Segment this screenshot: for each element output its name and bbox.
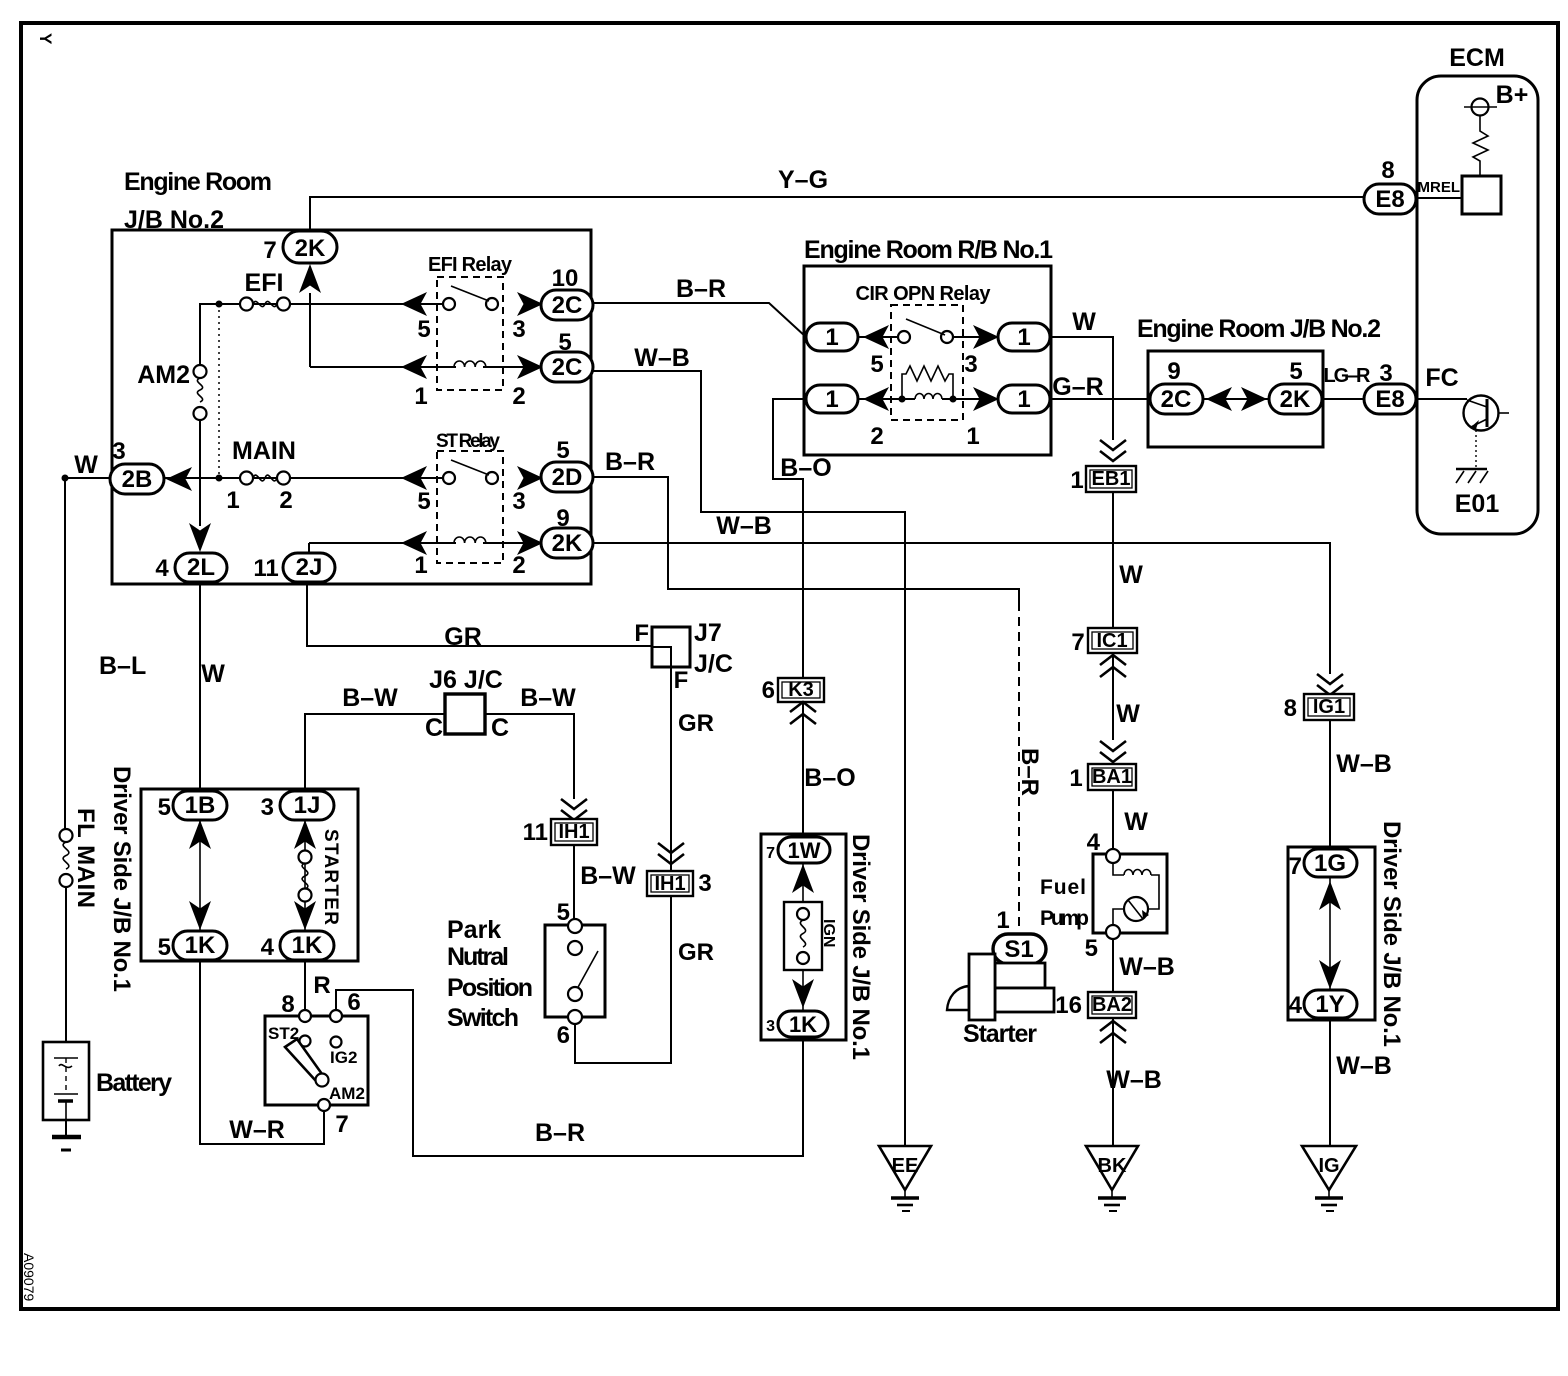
svg-text:K3: K3 bbox=[788, 679, 814, 701]
arrow up (1B) bbox=[189, 820, 211, 849]
svg-text:3: 3 bbox=[766, 1018, 775, 1035]
connector 2C pin 10 bbox=[541, 265, 593, 320]
ignition switch pin 6 bbox=[330, 989, 361, 1067]
connector 2K pin 7 bbox=[263, 231, 337, 264]
svg-text:B–W: B–W bbox=[520, 684, 576, 712]
svg-text:E01: E01 bbox=[1455, 490, 1500, 518]
svg-text:EE: EE bbox=[892, 1155, 919, 1177]
connector 1 (relay bottom-left) bbox=[806, 385, 858, 413]
svg-text:AM2: AM2 bbox=[329, 1084, 365, 1103]
svg-text:Pump: Pump bbox=[1040, 907, 1089, 930]
label GR bbox=[678, 939, 714, 966]
label W (battery feed) bbox=[74, 451, 98, 479]
wire GR 2J to J7 bbox=[307, 582, 651, 646]
connector 2K pin 5 (right J/B) bbox=[1269, 358, 1322, 414]
svg-text:1: 1 bbox=[1070, 467, 1083, 494]
svg-text:5: 5 bbox=[1289, 358, 1302, 385]
svg-text:Y–G: Y–G bbox=[778, 166, 828, 194]
svg-text:Starter: Starter bbox=[963, 1020, 1037, 1048]
wire W 1K(5) down to W-R run bbox=[200, 960, 318, 1144]
connector 1J pin 3 bbox=[261, 791, 334, 821]
svg-text:Battery: Battery bbox=[96, 1069, 172, 1097]
wire B-O relay pin2 to K3 bbox=[773, 399, 806, 680]
ignition switch pin 8 bbox=[268, 991, 311, 1047]
wire B-R 2C10 to CIR OPN relay bbox=[593, 303, 806, 337]
page connector chevrons into IG1 bbox=[1317, 674, 1343, 695]
wire BA1 to fuel pump pin 4 bbox=[1112, 790, 1114, 849]
arrow left EFI relay pin1 bbox=[401, 355, 427, 379]
ground battery bbox=[52, 1120, 81, 1150]
svg-text:FL MAIN: FL MAIN bbox=[72, 808, 99, 908]
arrow down (1K right) bbox=[294, 901, 316, 930]
arrow right EFI relay pin3 bbox=[517, 292, 543, 316]
connector 2C pin 5 bbox=[541, 329, 593, 382]
svg-text:Switch: Switch bbox=[447, 1004, 519, 1032]
label B-R rotated (starter wire) bbox=[1016, 748, 1043, 796]
svg-text:5: 5 bbox=[556, 437, 569, 464]
fuse STARTER bbox=[299, 820, 342, 931]
junction box Engine Room J/B No.2 (right) bbox=[1148, 351, 1323, 447]
svg-text:MAIN: MAIN bbox=[232, 437, 296, 465]
ignition switch rotor bbox=[285, 1039, 329, 1087]
arrow right ST relay pin2 bbox=[517, 531, 543, 555]
junction J7 J/C bbox=[634, 619, 733, 694]
connector BA2 pin 16 bbox=[1055, 992, 1136, 1019]
connector EB1 pin 1 bbox=[1070, 466, 1136, 494]
wire through J/B 2C-2K bbox=[1203, 398, 1364, 400]
connector 1K pin 5 bbox=[158, 931, 227, 961]
svg-text:E8: E8 bbox=[1375, 386, 1404, 413]
svg-text:1K: 1K bbox=[789, 1012, 817, 1037]
connector E8 pin 3 bbox=[1364, 360, 1416, 414]
svg-text:CIR OPN Relay: CIR OPN Relay bbox=[856, 283, 992, 305]
arrow left (to 2C) bbox=[1206, 387, 1232, 411]
label B-O bbox=[804, 764, 855, 792]
label CIR OPN Relay bbox=[856, 283, 992, 305]
label AM2 bbox=[137, 361, 190, 389]
connector 1B pin 5 bbox=[158, 791, 227, 821]
arrow up (1J) bbox=[294, 820, 316, 849]
svg-text:C: C bbox=[491, 714, 509, 742]
svg-text:2: 2 bbox=[279, 487, 292, 514]
connector 2D pin 5 bbox=[541, 437, 593, 492]
svg-text:2C: 2C bbox=[552, 354, 583, 381]
svg-text:4: 4 bbox=[261, 934, 275, 961]
svg-text:GR: GR bbox=[444, 623, 482, 651]
svg-text:B–W: B–W bbox=[342, 684, 398, 712]
svg-text:B–R: B–R bbox=[676, 275, 726, 303]
connector 1 (relay bottom-right) bbox=[998, 385, 1050, 413]
wire W relay to EB1 bbox=[1050, 337, 1113, 440]
connector 1 (relay top-left) bbox=[806, 323, 858, 351]
arrow right EFI relay pin2 bbox=[517, 355, 543, 379]
svg-text:B+: B+ bbox=[1496, 81, 1529, 109]
svg-text:W–B: W–B bbox=[1336, 1052, 1392, 1080]
svg-text:W: W bbox=[1124, 808, 1148, 836]
label ECM bbox=[1449, 44, 1505, 72]
transistor FC driver bbox=[1464, 396, 1510, 468]
svg-text:6: 6 bbox=[557, 1022, 570, 1049]
svg-text:1Y: 1Y bbox=[1315, 991, 1344, 1018]
svg-text:BK: BK bbox=[1098, 1155, 1127, 1177]
svg-text:A09079: A09079 bbox=[21, 1253, 37, 1301]
svg-text:8: 8 bbox=[1284, 695, 1297, 722]
svg-text:W: W bbox=[201, 660, 225, 688]
svg-text:B–R: B–R bbox=[535, 1119, 585, 1147]
svg-text:5: 5 bbox=[158, 794, 171, 821]
svg-text:Nutral: Nutral bbox=[447, 943, 509, 971]
svg-text:ST Relay: ST Relay bbox=[436, 431, 500, 452]
corner mark Y bbox=[36, 33, 55, 45]
wire B-W IH1 to PNP pin5 bbox=[573, 845, 575, 919]
svg-text:W–R: W–R bbox=[229, 1116, 285, 1144]
svg-text:Driver Side J/B No.1: Driver Side J/B No.1 bbox=[847, 834, 874, 1060]
ST relay contact bbox=[417, 460, 525, 515]
svg-text:S1: S1 bbox=[1004, 936, 1033, 963]
page connector chevrons into IH1(3) bbox=[658, 843, 684, 864]
connector 1K pin 4 bbox=[261, 931, 334, 961]
arrow down to 2L bbox=[189, 523, 211, 552]
connector IC1 pin 7 bbox=[1071, 628, 1137, 656]
EFI relay coil row wire bbox=[310, 366, 541, 368]
wire B-R IG2 to 1K(3) run bbox=[336, 990, 803, 1156]
arrow right (to 2K) bbox=[1241, 387, 1267, 411]
arrow down (1K middle) bbox=[792, 979, 814, 1008]
svg-text:1: 1 bbox=[414, 383, 427, 410]
svg-text:5: 5 bbox=[417, 488, 430, 515]
svg-text:7: 7 bbox=[1071, 629, 1084, 656]
svg-text:5: 5 bbox=[417, 316, 430, 343]
wire B-R 2D5 to starter S1 bbox=[593, 477, 1019, 930]
ST relay coil row wire bbox=[309, 543, 541, 553]
label Engine Room J/B No.2 (top-left) bbox=[124, 168, 272, 234]
label B-O bbox=[780, 454, 831, 482]
fusible link FL MAIN bbox=[60, 808, 100, 1042]
label W-B (2K9 run) bbox=[716, 512, 772, 540]
label B-R bbox=[535, 1119, 585, 1147]
junction box Driver Side J/B No.1 (middle) bbox=[761, 834, 846, 1040]
svg-text:MREL: MREL bbox=[1418, 179, 1461, 196]
svg-text:1: 1 bbox=[1017, 386, 1030, 413]
label B-L bbox=[99, 652, 146, 680]
svg-text:Driver Side J/B No.1: Driver Side J/B No.1 bbox=[1378, 821, 1405, 1047]
connector IG1 pin 8 bbox=[1284, 694, 1354, 722]
svg-text:EFI: EFI bbox=[245, 269, 284, 297]
svg-text:4: 4 bbox=[1289, 992, 1303, 1019]
svg-text:3: 3 bbox=[112, 438, 125, 465]
svg-text:11: 11 bbox=[523, 819, 548, 846]
svg-text:Engine Room: Engine Room bbox=[124, 168, 272, 196]
CIR OPN coil bbox=[870, 394, 979, 451]
svg-text:J/C: J/C bbox=[694, 650, 733, 678]
svg-text:10: 10 bbox=[552, 265, 579, 292]
label Park Nutral Position Switch bbox=[447, 916, 533, 1032]
label B-R (2D) bbox=[605, 448, 655, 476]
svg-text:EB1: EB1 bbox=[1092, 468, 1131, 490]
connector 2J pin 11 bbox=[253, 553, 335, 582]
junction box Driver Side J/B No.1 (right) bbox=[1288, 847, 1375, 1020]
svg-text:GR: GR bbox=[678, 710, 714, 737]
ignition switch pin 7 AM2 bbox=[318, 1084, 365, 1138]
arrow up (1W) bbox=[792, 864, 814, 893]
arrow up (1G) bbox=[1319, 881, 1341, 910]
fuel pump bbox=[1040, 829, 1167, 962]
label Y-G bbox=[778, 166, 828, 194]
svg-text:W: W bbox=[1072, 308, 1096, 336]
connector 2C pin 9 (right J/B) bbox=[1150, 358, 1203, 414]
svg-text:1: 1 bbox=[226, 487, 239, 514]
svg-text:3: 3 bbox=[512, 488, 525, 515]
arrow left CIR OPN pin2 bbox=[863, 387, 889, 411]
svg-text:11: 11 bbox=[253, 555, 278, 582]
svg-text:W–B: W–B bbox=[634, 344, 690, 372]
label EFI bbox=[245, 269, 284, 297]
svg-text:8: 8 bbox=[1381, 157, 1394, 184]
arrow right CIR OPN pin3 bbox=[973, 325, 999, 349]
svg-text:Driver Side J/B No.1: Driver Side J/B No.1 bbox=[108, 766, 135, 992]
svg-text:3: 3 bbox=[964, 351, 977, 378]
junction box Driver Side J/B No.1 (left) bbox=[141, 789, 358, 961]
label GR bbox=[678, 710, 714, 737]
label B-W (left) bbox=[342, 684, 398, 712]
svg-text:LG–R: LG–R bbox=[1324, 365, 1372, 387]
wire AM2 pin down to W-R bbox=[200, 1111, 324, 1144]
wire W 2L to 1B bbox=[199, 582, 201, 791]
arrow left ST relay pin1 bbox=[401, 531, 427, 555]
label W-B bbox=[634, 344, 690, 372]
label W-B bbox=[1106, 1066, 1162, 1094]
svg-text:FC: FC bbox=[1425, 364, 1458, 392]
svg-text:5: 5 bbox=[158, 934, 171, 961]
svg-text:Park: Park bbox=[447, 916, 501, 944]
svg-text:IC1: IC1 bbox=[1096, 630, 1127, 652]
svg-text:G–R: G–R bbox=[1052, 373, 1103, 401]
ground EE bbox=[879, 1146, 931, 1211]
label W-B bbox=[1119, 953, 1175, 981]
wire inside left J/B (1B-1K) bbox=[199, 820, 201, 931]
label B-W (right) bbox=[520, 684, 576, 712]
terminal B+ circle bbox=[1464, 99, 1497, 116]
label GR bbox=[444, 623, 482, 651]
connector 2K pin 9 bbox=[541, 505, 593, 558]
svg-text:W–B: W–B bbox=[1336, 750, 1392, 778]
label Driver Side J/B No.1 (left, rotated) bbox=[108, 766, 135, 992]
svg-text:6: 6 bbox=[762, 677, 775, 704]
label W bbox=[1116, 700, 1140, 728]
relay CIR OPN (dashed) bbox=[891, 305, 963, 420]
svg-text:2C: 2C bbox=[552, 292, 583, 319]
wire Y-G from 2K to ECM E8 bbox=[310, 197, 1366, 231]
wire FC into ECM bbox=[1416, 398, 1467, 400]
svg-text:5: 5 bbox=[1085, 935, 1098, 962]
label MAIN bbox=[232, 437, 296, 465]
svg-text:1: 1 bbox=[966, 423, 979, 450]
svg-text:1: 1 bbox=[1017, 324, 1030, 351]
svg-text:IH1: IH1 bbox=[654, 873, 685, 895]
arrow left CIR OPN pin5 bbox=[863, 325, 889, 349]
wire 1Y to IG ground bbox=[1329, 1018, 1331, 1146]
fuse EFI bbox=[240, 298, 290, 311]
svg-text:F: F bbox=[634, 620, 649, 647]
label B-W bbox=[580, 862, 636, 890]
resistor in ECM bbox=[1473, 115, 1488, 176]
park neutral position switch bbox=[545, 899, 605, 1049]
svg-text:B–O: B–O bbox=[804, 764, 855, 792]
svg-text:W: W bbox=[1119, 561, 1143, 589]
junction J6 J/C bbox=[425, 666, 509, 742]
svg-text:1B: 1B bbox=[185, 792, 216, 819]
connector BA1 pin 1 bbox=[1069, 764, 1136, 792]
label W-B bbox=[1336, 750, 1392, 778]
label Engine Room J/B No.2 (right) bbox=[1137, 315, 1381, 343]
label Engine Room R/B No.1 bbox=[804, 236, 1053, 264]
wire EFI row bbox=[199, 303, 444, 305]
svg-text:F: F bbox=[674, 667, 689, 694]
connector 2L pin 4 bbox=[155, 553, 227, 582]
label W bbox=[1072, 308, 1096, 336]
ground BK bbox=[1086, 1146, 1138, 1211]
svg-text:Engine Room R/B No.1: Engine Room R/B No.1 bbox=[804, 236, 1053, 264]
fuse IGN bbox=[784, 864, 837, 1011]
connector 1K pin 3 bbox=[766, 1011, 828, 1037]
CIR OPN contact row wires bbox=[858, 336, 998, 338]
wire W-B 2C5 to EE ground bbox=[593, 371, 905, 1146]
svg-text:2: 2 bbox=[512, 552, 525, 579]
svg-text:R: R bbox=[313, 972, 330, 999]
starter S1 connector pin 1 bbox=[993, 907, 1046, 964]
arrow down (1K left) bbox=[189, 901, 211, 930]
svg-text:J6 J/C: J6 J/C bbox=[429, 666, 503, 694]
wire W from left down to battery bbox=[62, 475, 111, 830]
svg-text:1: 1 bbox=[414, 552, 427, 579]
svg-text:1: 1 bbox=[825, 324, 838, 351]
relay EFI Relay (dashed) bbox=[428, 254, 513, 390]
svg-text:Position: Position bbox=[447, 974, 533, 1002]
svg-text:2K: 2K bbox=[295, 235, 326, 262]
svg-text:W–B: W–B bbox=[716, 512, 772, 540]
ground IG bbox=[1302, 1146, 1356, 1211]
starter motor body bbox=[947, 954, 1054, 1020]
svg-text:16: 16 bbox=[1055, 992, 1082, 1019]
wire MAIN row bbox=[164, 477, 444, 479]
wire GR J7 to IH1 bbox=[670, 668, 672, 871]
wire R 1K to ignition switch bbox=[304, 960, 306, 1010]
svg-text:9: 9 bbox=[1167, 358, 1180, 385]
svg-text:8: 8 bbox=[281, 991, 294, 1018]
svg-text:W: W bbox=[74, 451, 98, 479]
connector 2B pin 3 bbox=[110, 438, 164, 494]
svg-text:3: 3 bbox=[261, 794, 274, 821]
connector E8 pin 8 bbox=[1364, 157, 1462, 214]
svg-text:ECM: ECM bbox=[1449, 44, 1505, 72]
wire B-W 1J to J6 to IH1(11) bbox=[305, 714, 574, 799]
svg-text:4: 4 bbox=[1087, 829, 1101, 856]
label R bbox=[313, 972, 330, 999]
svg-text:1: 1 bbox=[996, 907, 1009, 934]
wire BA2 to BK ground bbox=[1112, 1018, 1114, 1146]
label FC bbox=[1425, 364, 1458, 392]
EFI relay coil bbox=[414, 361, 525, 410]
svg-text:1K: 1K bbox=[185, 932, 216, 959]
svg-text:AM2: AM2 bbox=[137, 361, 190, 389]
arrow left ST relay pin5 bbox=[401, 466, 427, 490]
fuse MAIN bbox=[226, 472, 292, 515]
svg-text:1W: 1W bbox=[788, 838, 821, 863]
sheet number A09079 bbox=[21, 1253, 37, 1301]
svg-text:C: C bbox=[425, 714, 443, 742]
svg-text:B–R: B–R bbox=[605, 448, 655, 476]
svg-text:5: 5 bbox=[557, 899, 570, 926]
svg-text:1K: 1K bbox=[292, 932, 323, 959]
wire inside right J/B bbox=[1329, 877, 1331, 990]
relay ST Relay (dashed) bbox=[436, 431, 503, 563]
label LG-R bbox=[1324, 365, 1372, 387]
wire B-O K3 to 1W bbox=[802, 702, 804, 839]
label W-B bbox=[1336, 1052, 1392, 1080]
ignition switch box bbox=[265, 1016, 368, 1105]
svg-text:2D: 2D bbox=[552, 464, 583, 491]
svg-text:1: 1 bbox=[1069, 765, 1082, 792]
wire fuel pump to BA2 bbox=[1112, 939, 1114, 992]
svg-text:7: 7 bbox=[263, 237, 276, 264]
svg-text:IGN: IGN bbox=[820, 919, 837, 947]
svg-text:IG1: IG1 bbox=[1313, 696, 1345, 718]
svg-text:IG2: IG2 bbox=[330, 1048, 357, 1067]
CIR OPN resistor (parallel) bbox=[902, 366, 953, 399]
svg-text:J7: J7 bbox=[694, 619, 722, 647]
arrow right CIR OPN pin1 bbox=[973, 387, 999, 411]
svg-text:B–W: B–W bbox=[580, 862, 636, 890]
svg-text:7: 7 bbox=[766, 845, 775, 862]
page connector chevrons below IC1 bbox=[1100, 655, 1126, 677]
connector 1 (relay top-right) bbox=[998, 323, 1050, 351]
wire EB1 to IC1 bbox=[1112, 492, 1114, 628]
node EFI/MAIN internal link (dotted) bbox=[216, 301, 223, 482]
ST relay coil bbox=[414, 537, 525, 579]
wire IG1 to 1G bbox=[1329, 720, 1331, 851]
svg-text:W: W bbox=[1116, 700, 1140, 728]
svg-text:2B: 2B bbox=[122, 466, 153, 493]
svg-text:2: 2 bbox=[870, 423, 883, 450]
svg-text:3: 3 bbox=[512, 316, 525, 343]
svg-text:2C: 2C bbox=[1161, 386, 1192, 413]
svg-text:2: 2 bbox=[512, 383, 525, 410]
svg-text:BA2: BA2 bbox=[1092, 994, 1132, 1016]
page connector chevrons into BA1 bbox=[1100, 741, 1126, 762]
svg-text:2K: 2K bbox=[552, 530, 583, 557]
ECM box bbox=[1417, 76, 1538, 534]
connector IH1 pin 11 bbox=[523, 819, 597, 846]
page connector chevrons into EB1 bbox=[1100, 440, 1126, 461]
connector 1W pin 7 bbox=[766, 837, 830, 863]
svg-text:1G: 1G bbox=[1314, 850, 1346, 877]
battery bbox=[43, 1042, 172, 1120]
page connector chevrons below BA2 bbox=[1100, 1021, 1126, 1043]
page connector chevrons into IH1(11) bbox=[561, 799, 587, 820]
svg-text:2K: 2K bbox=[1280, 386, 1311, 413]
svg-text:IG: IG bbox=[1318, 1155, 1339, 1177]
wire W-B 2K9 to IG1 bbox=[593, 543, 1330, 674]
svg-text:Fuel: Fuel bbox=[1040, 876, 1086, 899]
svg-text:5: 5 bbox=[870, 351, 883, 378]
label W bbox=[201, 660, 225, 688]
label W bbox=[1124, 808, 1148, 836]
arrow up to 2K bbox=[299, 264, 321, 293]
wire GR IH1 to PNP pin6 bbox=[575, 896, 671, 1063]
svg-text:W–B: W–B bbox=[1119, 953, 1175, 981]
CIR OPN coil row wires bbox=[858, 398, 998, 400]
svg-text:4: 4 bbox=[155, 555, 169, 582]
